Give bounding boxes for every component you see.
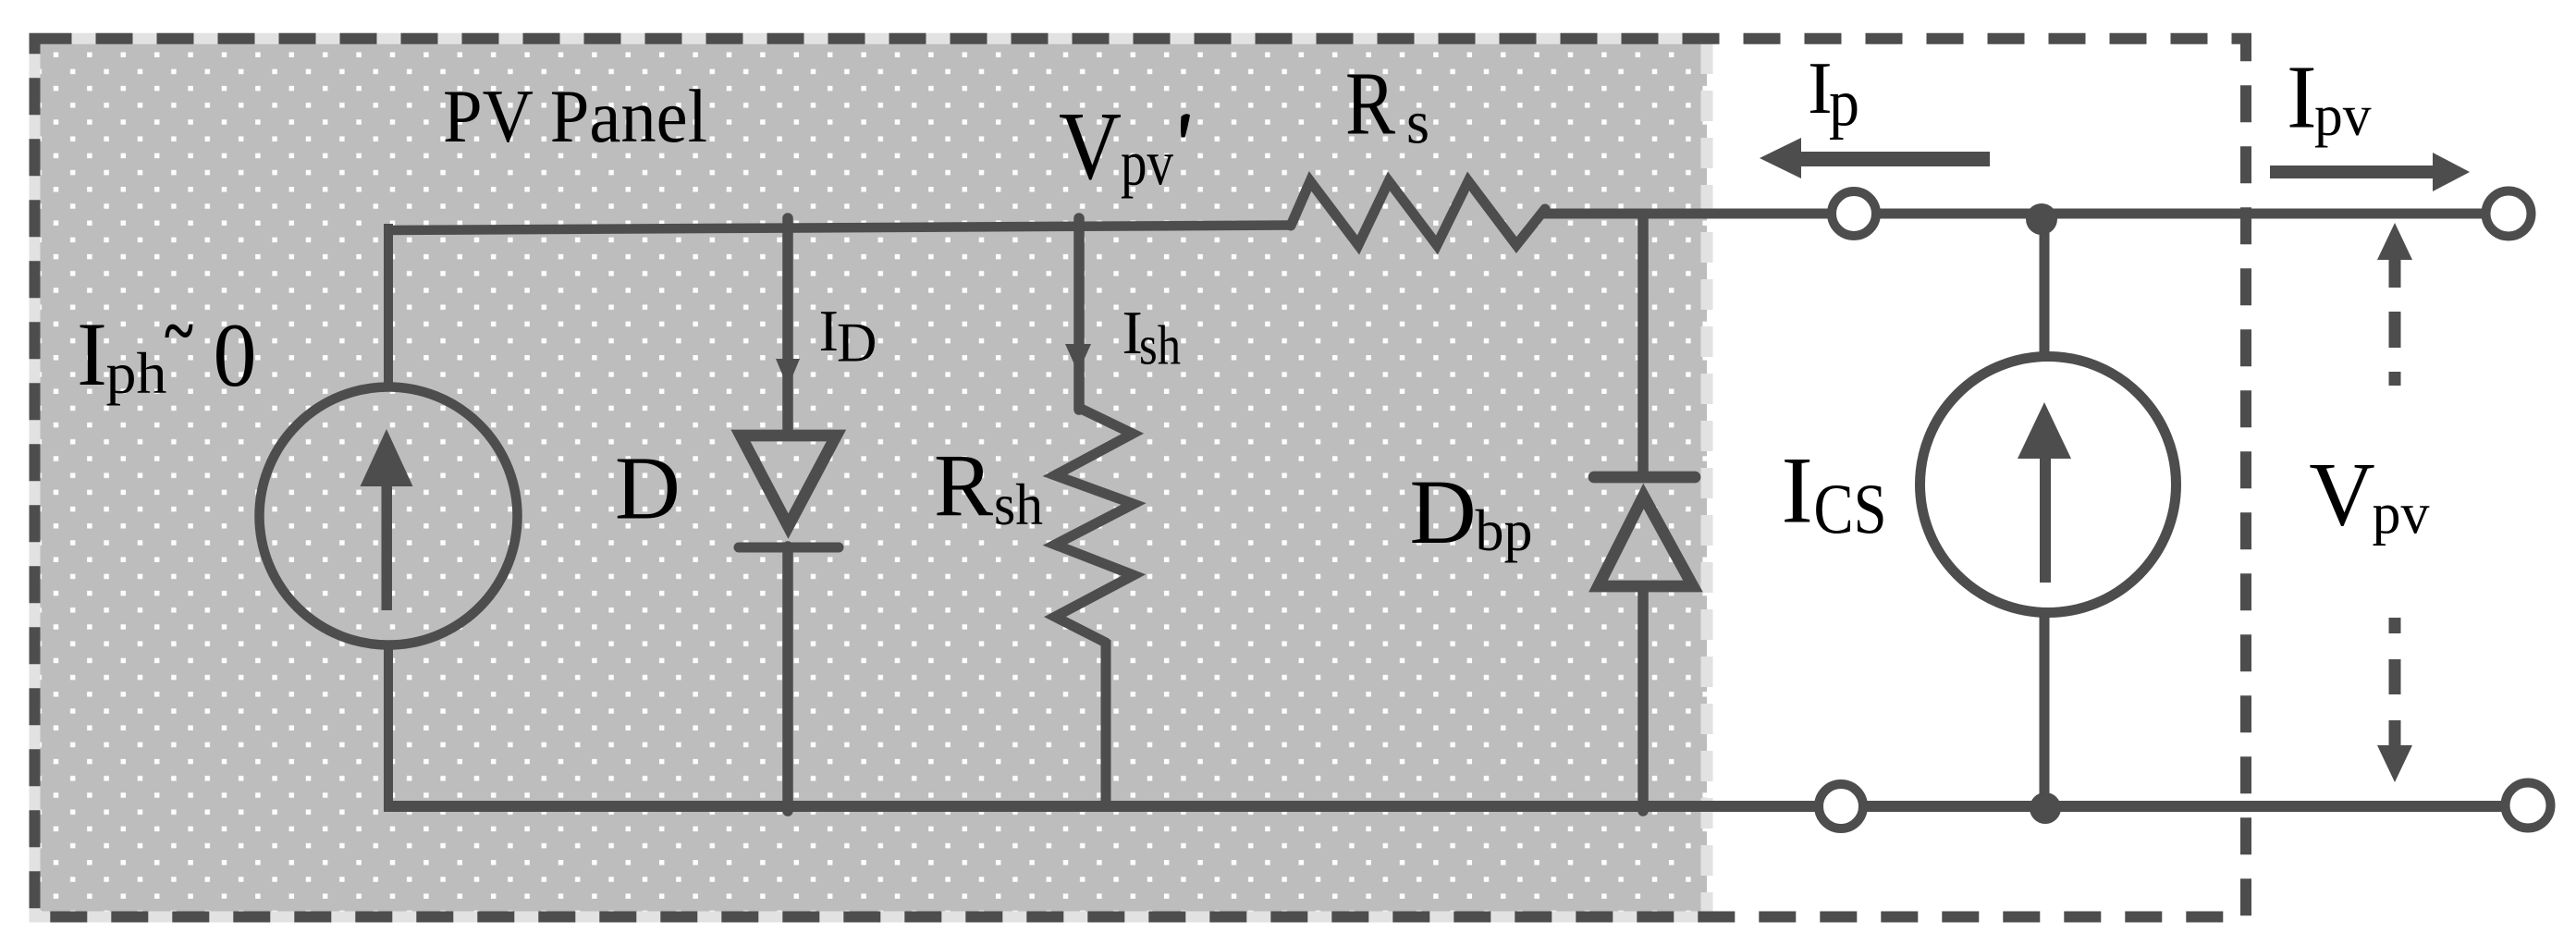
svg-text:I: I [77, 304, 107, 405]
diode D [741, 436, 837, 526]
wire ICS bottom riser [2040, 615, 2050, 806]
svg-text:I: I [819, 298, 839, 363]
wire diode D bottom [782, 546, 793, 811]
current Ish arrowhead [1065, 344, 1091, 373]
svg-text:R: R [1345, 55, 1396, 154]
wire Dbp top [1638, 214, 1649, 478]
svg-text:I: I [1782, 438, 1813, 544]
PV Panel shaded region (dotted gray) [35, 39, 1708, 917]
svg-text:D: D [1410, 460, 1477, 563]
wire CS1 top riser [384, 224, 393, 388]
svg-text:pv: pv [1121, 129, 1173, 200]
Ipv arrow shaft [2270, 166, 2435, 178]
wire top-left bus [384, 226, 1291, 231]
current source ICS body [1920, 357, 2177, 613]
Ipv arrow head [2433, 153, 2470, 191]
svg-text:ph: ph [106, 340, 167, 406]
diode Dbp cathode bar [1594, 472, 1695, 484]
ICS arrow shaft [2040, 457, 2051, 583]
Ip arrow head [1760, 138, 1801, 178]
terminal node top inner [1832, 191, 1876, 236]
svg-text:sh: sh [994, 472, 1043, 537]
svg-text:bp: bp [1476, 498, 1533, 563]
svg-text:D: D [615, 439, 681, 539]
svg-text:pv: pv [2373, 481, 2430, 546]
wire CS1 bottom riser [384, 644, 393, 811]
svg-text:V: V [2309, 445, 2375, 546]
svg-text:V: V [1059, 92, 1122, 200]
svg-text:0: 0 [214, 305, 257, 406]
ICS arrow head [2018, 402, 2071, 459]
terminals [1819, 191, 2551, 829]
Ip arrow shaft [1797, 152, 1990, 166]
svg-text:s: s [1406, 89, 1429, 157]
Vpv dashed shaft upper [2389, 260, 2401, 386]
svg-text:PV Panel: PV Panel [443, 74, 707, 158]
Vpv down arrowhead [2377, 745, 2412, 782]
diode Dbp [1599, 497, 1694, 587]
current source Iph (PV cell) body [260, 387, 518, 645]
current source Iph arrow head [361, 429, 413, 486]
svg-text:~: ~ [165, 292, 193, 370]
svg-text:p: p [1829, 66, 1859, 141]
svg-text:R: R [934, 436, 993, 534]
wire ICS top riser [2040, 217, 2050, 355]
node junction bottom (ICS tap) [2030, 792, 2061, 824]
PV Panel region light border (left, top, bottom solid backing) [35, 39, 1708, 917]
current source Iph arrow shaft [382, 481, 393, 610]
svg-text:D: D [837, 313, 877, 374]
node junction top (ICS tap) [2026, 203, 2057, 235]
Vpv dashed shaft lower [2389, 618, 2401, 745]
Vpv up arrowhead [2377, 223, 2412, 260]
terminal node bottom inner [1819, 784, 1863, 828]
diode D cathode bar [739, 543, 839, 553]
wire Rsh bottom [1101, 640, 1111, 808]
wire diode D top [782, 218, 793, 435]
resistor Rs [1291, 181, 1545, 245]
current ID arrowhead [776, 359, 800, 387]
terminal node top outer [2486, 191, 2532, 237]
svg-text:pv: pv [2314, 82, 2372, 148]
wire Rsh top [1073, 218, 1085, 410]
terminal node bottom outer [2506, 783, 2551, 828]
wire top-right bus [1543, 209, 2487, 219]
wire Dbp bottom [1638, 586, 1649, 811]
wire bottom bus [384, 801, 2507, 812]
svg-text:CS: CS [1814, 469, 1887, 548]
svg-text:I: I [2287, 47, 2317, 147]
resistor Rsh [1055, 408, 1134, 643]
svg-text:sh: sh [1139, 315, 1181, 376]
outer dashed box [35, 39, 2247, 917]
PV Panel region light dashed right edge [1701, 43, 1713, 912]
